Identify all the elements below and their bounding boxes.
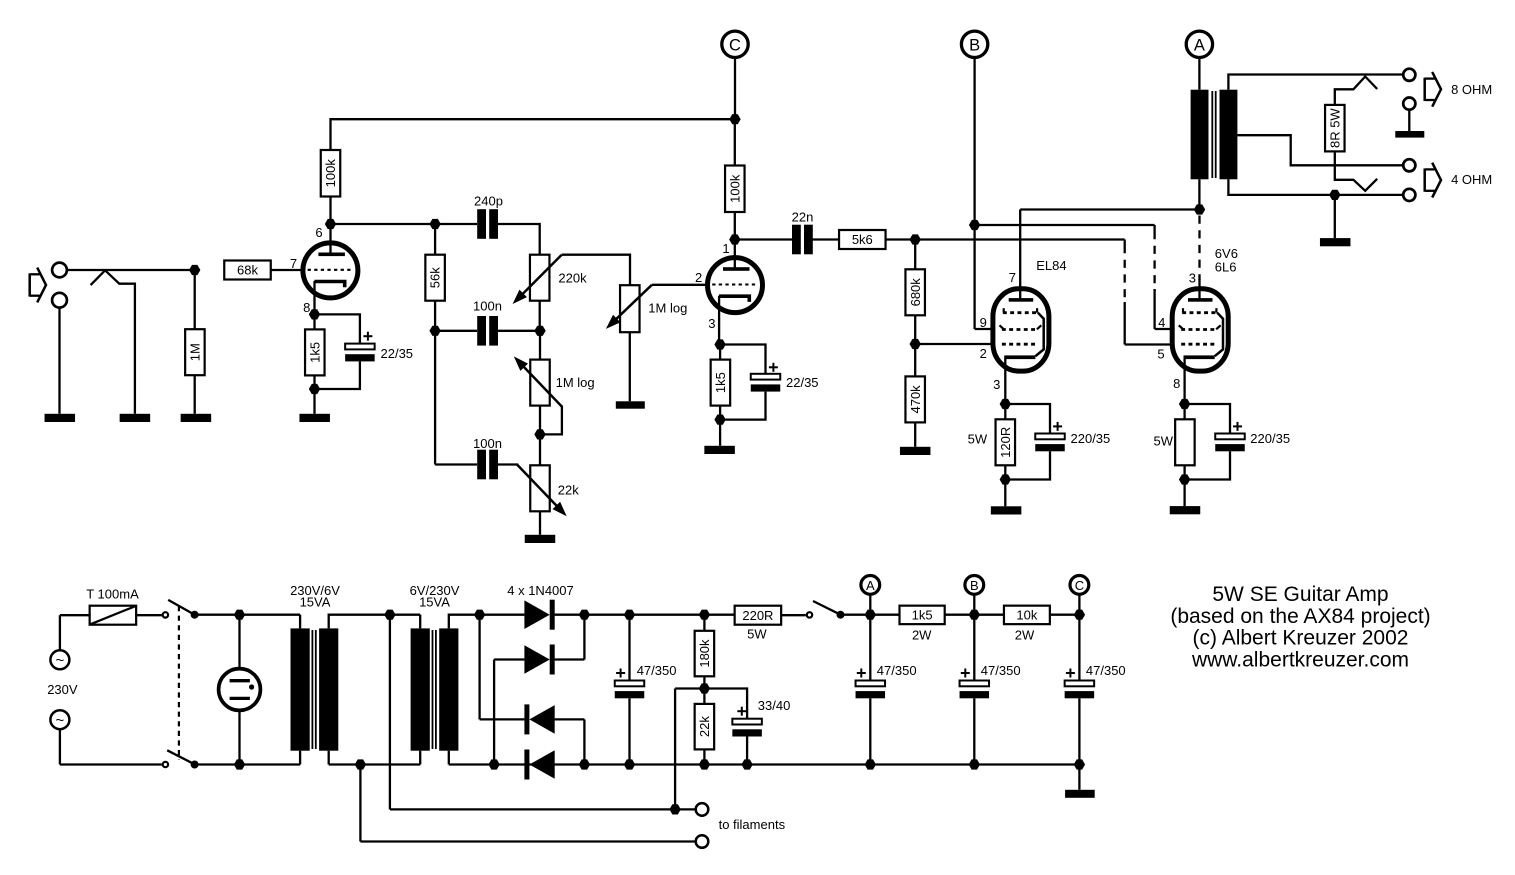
svg-text:220R: 220R bbox=[742, 608, 773, 623]
svg-text:220/35: 220/35 bbox=[1250, 431, 1290, 446]
svg-text:22k: 22k bbox=[697, 716, 712, 737]
svg-text:5k6: 5k6 bbox=[852, 232, 873, 247]
svg-text:5W: 5W bbox=[1154, 434, 1174, 449]
svg-text:1k5: 1k5 bbox=[307, 342, 322, 363]
svg-text:3: 3 bbox=[993, 377, 1000, 392]
svg-text:47/350: 47/350 bbox=[637, 663, 677, 678]
svg-text:230V: 230V bbox=[47, 682, 78, 697]
svg-text:8R 5W: 8R 5W bbox=[1327, 108, 1342, 148]
svg-text:15VA: 15VA bbox=[300, 594, 331, 609]
svg-text:56k: 56k bbox=[428, 267, 443, 288]
svg-text:7: 7 bbox=[290, 256, 297, 271]
svg-text:3: 3 bbox=[708, 316, 715, 331]
svg-text:33/40: 33/40 bbox=[758, 698, 791, 713]
svg-text:~: ~ bbox=[56, 652, 65, 669]
svg-text:22n: 22n bbox=[792, 210, 814, 225]
svg-text:5W SE Guitar Amp: 5W SE Guitar Amp bbox=[1212, 583, 1388, 606]
svg-text:A: A bbox=[866, 578, 875, 593]
svg-text:C: C bbox=[729, 37, 741, 55]
svg-text:10k: 10k bbox=[1016, 608, 1037, 623]
svg-text:22k: 22k bbox=[558, 482, 579, 497]
svg-text:5W: 5W bbox=[747, 627, 767, 642]
svg-text:1: 1 bbox=[722, 241, 729, 256]
svg-text:2: 2 bbox=[695, 270, 702, 285]
svg-text:~: ~ bbox=[56, 712, 65, 729]
svg-text:100n: 100n bbox=[473, 299, 502, 314]
svg-text:6L6: 6L6 bbox=[1215, 260, 1237, 275]
svg-text:B: B bbox=[970, 578, 979, 593]
svg-text:22/35: 22/35 bbox=[786, 375, 819, 390]
svg-text:4 x 1N4007: 4 x 1N4007 bbox=[507, 583, 574, 598]
svg-text:EL84: EL84 bbox=[1036, 258, 1066, 273]
svg-text:4: 4 bbox=[1158, 315, 1165, 330]
svg-text:4 OHM: 4 OHM bbox=[1451, 172, 1492, 187]
svg-text:to filaments: to filaments bbox=[719, 817, 786, 832]
svg-text:8: 8 bbox=[303, 300, 310, 315]
svg-text:7: 7 bbox=[1009, 270, 1016, 285]
svg-text:15VA: 15VA bbox=[419, 594, 450, 609]
svg-text:1k5: 1k5 bbox=[713, 372, 728, 393]
svg-text:5: 5 bbox=[1157, 346, 1164, 361]
svg-text:C: C bbox=[1075, 578, 1084, 593]
svg-text:1M: 1M bbox=[188, 343, 203, 361]
svg-text:220/35: 220/35 bbox=[1071, 431, 1111, 446]
svg-text:5W: 5W bbox=[968, 431, 988, 446]
svg-text:6: 6 bbox=[315, 225, 322, 240]
svg-text:68k: 68k bbox=[237, 263, 258, 278]
svg-text:A: A bbox=[1194, 37, 1205, 55]
svg-text:2: 2 bbox=[980, 346, 987, 361]
svg-text:1M log: 1M log bbox=[556, 375, 595, 390]
svg-text:8 OHM: 8 OHM bbox=[1451, 82, 1492, 97]
svg-text:100k: 100k bbox=[727, 174, 742, 203]
svg-text:1M log: 1M log bbox=[648, 301, 687, 316]
svg-text:47/350: 47/350 bbox=[981, 663, 1021, 678]
svg-text:8: 8 bbox=[1173, 376, 1180, 391]
svg-text:T 100mA: T 100mA bbox=[86, 587, 139, 602]
svg-text:240p: 240p bbox=[474, 193, 503, 208]
svg-text:220k: 220k bbox=[558, 270, 587, 285]
svg-text:680k: 680k bbox=[908, 278, 923, 307]
svg-text:B: B bbox=[969, 37, 980, 55]
svg-text:www.albertkreuzer.com: www.albertkreuzer.com bbox=[1191, 649, 1409, 672]
svg-text:3: 3 bbox=[1189, 271, 1196, 286]
svg-text:2W: 2W bbox=[912, 627, 932, 642]
svg-text:2W: 2W bbox=[1015, 627, 1035, 642]
svg-text:470k: 470k bbox=[908, 385, 923, 414]
svg-text:1k5: 1k5 bbox=[912, 608, 933, 623]
svg-text:47/350: 47/350 bbox=[1086, 663, 1126, 678]
svg-text:100n: 100n bbox=[473, 436, 502, 451]
svg-text:180k: 180k bbox=[697, 639, 712, 668]
svg-text:47/350: 47/350 bbox=[877, 663, 917, 678]
svg-text:120R: 120R bbox=[998, 427, 1013, 458]
svg-text:(c) Albert Kreuzer 2002: (c) Albert Kreuzer 2002 bbox=[1193, 627, 1409, 650]
svg-text:100k: 100k bbox=[323, 159, 338, 188]
svg-text:(based on the AX84 project): (based on the AX84 project) bbox=[1170, 605, 1430, 628]
svg-text:22/35: 22/35 bbox=[381, 346, 414, 361]
svg-text:9: 9 bbox=[980, 315, 987, 330]
